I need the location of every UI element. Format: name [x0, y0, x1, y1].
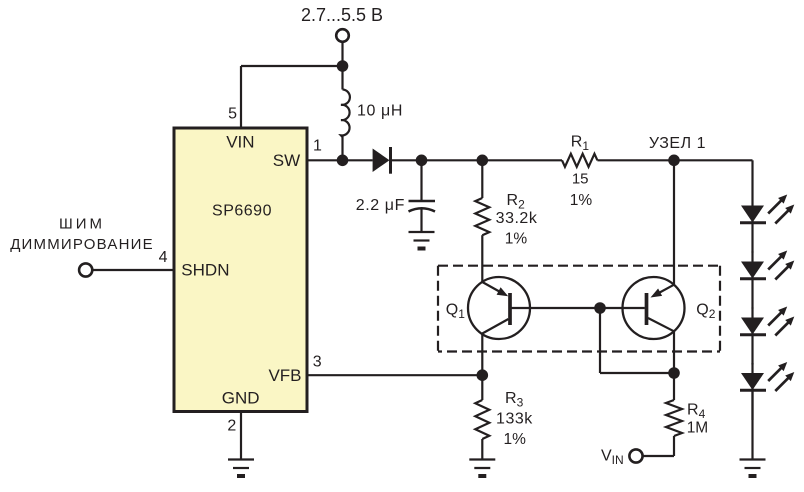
- svg-text:5: 5: [228, 105, 237, 122]
- svg-text:1%: 1%: [505, 231, 528, 248]
- svg-text:R3: R3: [505, 390, 524, 410]
- svg-text:1%: 1%: [570, 192, 593, 209]
- svg-text:2.2 μF: 2.2 μF: [356, 197, 405, 214]
- svg-text:1%: 1%: [503, 431, 526, 448]
- svg-text:3: 3: [313, 354, 322, 371]
- svg-text:Q1: Q1: [446, 301, 465, 321]
- svg-text:VIN: VIN: [601, 448, 624, 468]
- svg-text:VIN: VIN: [226, 133, 254, 152]
- svg-text:33.2k: 33.2k: [496, 210, 538, 227]
- svg-text:УЗЕЛ 1: УЗЕЛ 1: [649, 135, 706, 152]
- svg-text:2.7...5.5 В: 2.7...5.5 В: [301, 5, 383, 25]
- svg-text:VFB: VFB: [268, 366, 301, 385]
- svg-text:2: 2: [227, 418, 236, 435]
- svg-text:R4: R4: [687, 401, 706, 421]
- svg-text:SHDN: SHDN: [181, 261, 229, 280]
- svg-text:10 μH: 10 μH: [357, 103, 403, 120]
- svg-text:GND: GND: [222, 389, 260, 408]
- svg-text:1: 1: [313, 138, 322, 155]
- svg-text:SP6690: SP6690: [212, 202, 272, 219]
- svg-text:4: 4: [159, 249, 168, 266]
- svg-text:15: 15: [572, 170, 589, 187]
- svg-text:ШИМ: ШИМ: [59, 215, 105, 232]
- svg-text:R1: R1: [571, 134, 590, 154]
- svg-text:ДИММИРОВАНИЕ: ДИММИРОВАНИЕ: [10, 236, 154, 253]
- svg-text:Q2: Q2: [696, 301, 715, 321]
- svg-text:1M: 1M: [687, 420, 709, 437]
- svg-text:R2: R2: [507, 192, 526, 212]
- svg-text:133k: 133k: [496, 410, 533, 427]
- svg-text:SW: SW: [273, 151, 300, 170]
